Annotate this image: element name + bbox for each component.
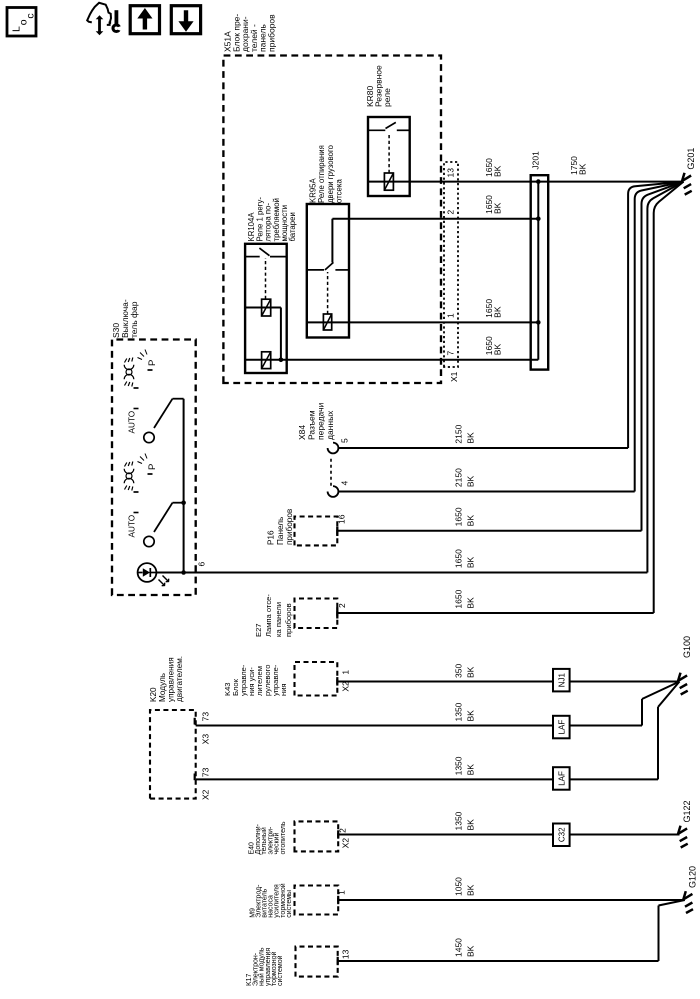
terminal P16 — [336, 527, 338, 537]
component K17 box — [296, 947, 338, 977]
relay KR95A — [307, 204, 349, 338]
svg-text:C32: C32 — [557, 827, 566, 842]
svg-text:7: 7 — [446, 351, 456, 356]
position P glyph — [138, 350, 159, 371]
component E27 box — [295, 599, 338, 629]
svg-text:73: 73 — [201, 767, 211, 777]
svg-text:G120: G120 — [687, 866, 697, 888]
splice J201 — [531, 175, 549, 369]
wire K17 1450 BK — [338, 960, 659, 962]
svg-text:4: 4 — [340, 481, 350, 486]
icon Loc box — [7, 8, 36, 37]
svg-text:c: c — [25, 13, 37, 18]
wire KR104A coil-a lead — [245, 307, 281, 309]
inline connector NJ1 — [553, 669, 570, 692]
link X84 dashed — [330, 456, 332, 486]
terminal X84-4 cup — [328, 486, 339, 497]
svg-text:2: 2 — [338, 828, 348, 833]
svg-text:LAF: LAF — [557, 720, 566, 735]
component K43 box — [295, 662, 338, 696]
wire E27-2 to G201 — [654, 182, 684, 613]
svg-text:P: P — [147, 360, 158, 366]
svg-text:16: 16 — [337, 514, 347, 524]
component E40 box — [295, 821, 339, 851]
wire K17 diag — [659, 900, 685, 906]
component K20 box — [150, 710, 196, 799]
component M9 box — [295, 886, 339, 915]
wire K20-X2 1350 BK — [196, 778, 658, 780]
terminal E27 — [336, 608, 338, 619]
terminal K43 — [336, 677, 338, 686]
svg-text:G100: G100 — [682, 636, 692, 658]
wire S30-6 to G201 — [647, 182, 683, 573]
icon up-arrow box — [130, 6, 159, 34]
wire X84-5 to G201 — [628, 182, 683, 448]
icon Loc letters — [11, 13, 37, 32]
wire 1650 BK pin7 — [245, 359, 538, 361]
terminal E40 — [337, 830, 339, 838]
position lamp glyph — [124, 358, 138, 389]
svg-text:X2: X2 — [341, 838, 351, 849]
svg-text:X2: X2 — [341, 681, 351, 692]
ground G120 — [683, 891, 693, 913]
coil KR104A-b — [262, 352, 271, 369]
relay KR104A — [245, 244, 287, 373]
terminal X84-5 cup — [328, 443, 339, 454]
svg-text:13: 13 — [446, 168, 456, 178]
wire M9 1050 BK — [338, 899, 685, 901]
position P glyph — [138, 454, 159, 475]
connector X1 — [444, 162, 458, 367]
wire K17 run — [658, 906, 660, 962]
switch wafer contact — [144, 432, 154, 442]
junction KR104A — [279, 358, 284, 363]
svg-text:X2: X2 — [201, 789, 211, 800]
svg-text:NJ1: NJ1 — [557, 672, 566, 687]
svg-text:2: 2 — [337, 603, 347, 608]
junction bus-lamp — [181, 570, 186, 575]
wire K20-X2 diag — [658, 682, 680, 708]
wire K20-X3 diag — [642, 682, 680, 700]
icon down-arrow box — [171, 6, 200, 34]
svg-text:P: P — [147, 464, 158, 470]
svg-text:1: 1 — [446, 313, 456, 318]
wire X84-5 2150 BK — [338, 447, 628, 449]
wire K20-X3 run — [641, 699, 643, 726]
wire X84-4 2150 BK — [338, 491, 634, 493]
ground G100 — [678, 673, 688, 695]
tick — [134, 408, 139, 410]
wire E27 1650 BK — [337, 612, 653, 614]
position lamp glyph — [124, 462, 138, 493]
wire 1650 BK pin2 — [332, 218, 538, 220]
wire K20-X3 1350 BK — [196, 725, 642, 727]
wire S30 internal bus — [183, 399, 185, 573]
switch lever — [154, 503, 173, 532]
component P16 box — [295, 517, 338, 546]
wire 1650 BK pin13 / 1750 BK to G201 — [368, 181, 684, 183]
svg-text:J201: J201 — [531, 151, 541, 170]
svg-text:AUTO: AUTO — [128, 515, 137, 538]
coil KR95A — [323, 314, 331, 330]
svg-text:LAF: LAF — [557, 771, 566, 786]
svg-text:X1: X1 — [449, 371, 459, 382]
switch S30 box — [112, 340, 196, 596]
svg-text:X51AБлок пре-дохрани-телей -па: X51AБлок пре-дохрани-телей -панельприбор… — [223, 14, 277, 52]
svg-text:1: 1 — [337, 890, 347, 895]
svg-text:G122: G122 — [682, 800, 692, 822]
svg-text:13: 13 — [341, 949, 351, 959]
svg-text:G201: G201 — [686, 148, 696, 170]
fuse block X51A — [223, 56, 441, 384]
svg-text:2: 2 — [446, 210, 456, 215]
svg-text:L: L — [11, 26, 23, 32]
lever to bus — [173, 398, 184, 400]
wire K20-X2 run — [657, 707, 659, 779]
lever to bus — [173, 502, 184, 504]
switch wafer contact — [144, 536, 154, 546]
ground G122 — [678, 826, 688, 848]
relay KR80 — [368, 117, 410, 196]
wire P16-16 to G201 — [642, 182, 684, 531]
wire P16 1650 BK — [337, 530, 641, 532]
switch lever — [154, 399, 173, 428]
svg-text:AUTO: AUTO — [128, 411, 137, 434]
terminal K20-X3 — [194, 718, 196, 725]
svg-text:1: 1 — [341, 670, 351, 675]
wire KR104A elbow — [280, 308, 282, 360]
wire S30 pin6 1650 BK — [156, 572, 647, 574]
svg-text:X3: X3 — [201, 734, 211, 745]
terminal K20-X2 — [194, 774, 196, 781]
svg-text:6: 6 — [197, 562, 207, 567]
wire K43 350 BK — [337, 681, 679, 683]
tick — [134, 512, 139, 514]
junction bus-sw2 — [181, 500, 186, 505]
svg-text:5: 5 — [340, 438, 350, 443]
inline connector LAF (X2) — [553, 767, 570, 790]
coil KR104A-a — [262, 299, 271, 316]
terminal M9 — [337, 896, 339, 904]
svg-text:73: 73 — [201, 712, 211, 722]
ground G201 — [682, 173, 692, 195]
inline connector LAF (X3) — [553, 716, 570, 739]
wire X84-4 to G201 — [635, 182, 684, 492]
inline connector C32 — [553, 824, 570, 847]
icon vehicle-lift — [87, 3, 122, 36]
coil KR80 — [384, 173, 393, 190]
wire 1650 BK pin1 — [307, 321, 539, 323]
wire E40 1350 BK — [338, 834, 679, 836]
terminal K17 — [337, 957, 339, 965]
wire KR95A-2 corner — [331, 219, 333, 263]
svg-text:o: o — [18, 19, 30, 25]
lamp/LED S30 illumination — [138, 563, 169, 586]
